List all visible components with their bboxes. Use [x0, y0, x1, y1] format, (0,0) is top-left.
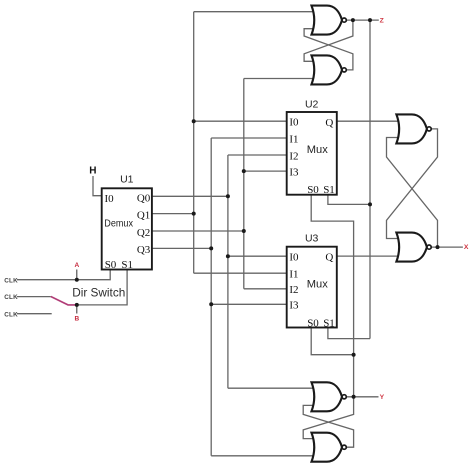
wire net Q1 top to NOR G1 input — [194, 11, 315, 13]
wire U3.S0 pin — [311, 328, 353, 355]
junction net Q0 / U3.I0 — [226, 254, 230, 258]
wire U1.Q3 to node V2 — [152, 247, 211, 249]
svg-text:CLK: CLK — [4, 311, 18, 318]
wire G1 output to G2 upper input (Z latch feedback) — [304, 20, 353, 61]
svg-text:Q3: Q3 — [137, 244, 151, 256]
svg-text:Mux: Mux — [307, 144, 329, 156]
svg-text:Q2: Q2 — [137, 227, 150, 239]
wire net Q2 to NOR G2 input — [244, 78, 315, 80]
junction net Q1 / U2.I0 — [192, 119, 196, 123]
svg-text:Q0: Q0 — [137, 192, 151, 204]
svg-text:Dir Switch: Dir Switch — [72, 285, 125, 299]
svg-text:H: H — [89, 166, 96, 177]
junction net Q3 / U3.I3 — [209, 302, 213, 306]
wire U1.Q0 to node V3 — [152, 195, 228, 197]
svg-text:Mux: Mux — [307, 278, 329, 290]
NOR gate G6 (Y latch lower) — [312, 433, 343, 462]
wire vertical net Q2 (V4) — [243, 79, 245, 289]
svg-text:S0: S0 — [307, 184, 319, 196]
svg-text:I3: I3 — [289, 300, 299, 312]
svg-text:S0: S0 — [307, 317, 319, 329]
wire NOR G5 output to Y — [347, 396, 379, 398]
svg-text:I1: I1 — [289, 133, 298, 145]
svg-text:Y: Y — [380, 394, 385, 401]
mux U2 body — [287, 112, 337, 195]
svg-text:S0: S0 — [105, 259, 117, 271]
svg-text:U1: U1 — [120, 174, 134, 186]
svg-text:Q1: Q1 — [137, 210, 150, 222]
junction Z net / U2.S1 — [368, 202, 372, 206]
wire U1.Q1 to node V1 — [152, 213, 194, 215]
wire net Q2 to U3.I2 — [244, 288, 287, 290]
svg-text:I2: I2 — [289, 284, 298, 296]
junction net Q2 / U1.Q2 — [242, 229, 246, 233]
wire vertical net Q3 (V2) — [210, 138, 212, 456]
wire net Q2 to U2.I3 — [244, 170, 287, 172]
svg-text:I1: I1 — [289, 269, 298, 281]
wire net Q3 to NOR G6 input — [211, 455, 315, 457]
node B tick — [76, 305, 78, 314]
svg-text:B: B — [74, 315, 79, 322]
wire CLK1 to U1.S0 — [17, 270, 110, 280]
junction Y net / U3.S0 — [352, 353, 356, 357]
switch blade (Dir Switch, pink) — [51, 297, 77, 305]
wire G5 output to G6 upper input (Y latch feedback) — [303, 397, 353, 439]
wire U3.S1 pin — [328, 328, 370, 339]
svg-text:S1: S1 — [323, 317, 335, 329]
wire NOR G1 output to Z — [347, 19, 379, 21]
wire net Q3 to U2.I1 — [211, 137, 287, 139]
junction node X — [436, 245, 440, 249]
NOR gate G1 (Z latch upper) — [312, 6, 343, 35]
wire G2 output to G1 lower input (Z latch feedback) — [304, 29, 353, 70]
junction net Q1 / U1.Q1 — [192, 212, 196, 216]
wire G6 output to G5 lower input (Y latch feedback) — [303, 405, 353, 447]
junction Z output feedback — [351, 18, 355, 22]
wire net Q0 to NOR G5 input — [228, 387, 315, 389]
demux U1 body — [102, 188, 152, 269]
wire Z net vertical — [369, 20, 371, 339]
svg-text:Z: Z — [380, 17, 384, 24]
wire node B to U1.S1 — [77, 270, 127, 305]
junction net Q3 / U1.Q3 — [209, 246, 213, 250]
svg-text:I0: I0 — [289, 117, 299, 129]
junction net Q2 / U2.I3 — [242, 169, 246, 173]
wire U2.S1 pin — [328, 195, 370, 205]
wire NOR G4 output to X — [431, 246, 463, 248]
svg-text:Q: Q — [325, 252, 333, 264]
svg-text:CLK: CLK — [4, 277, 18, 284]
junction net Q0 / U1.Q0 — [226, 194, 230, 198]
svg-text:U3: U3 — [305, 233, 319, 245]
node B junction — [75, 303, 79, 307]
wire CLK3 stub — [17, 313, 52, 315]
svg-text:I0: I0 — [289, 252, 299, 264]
svg-text:A: A — [74, 262, 79, 269]
svg-text:X: X — [464, 244, 469, 251]
svg-text:S1: S1 — [121, 259, 133, 271]
wire net Q1 to U2.I0 — [194, 120, 287, 122]
wire G3 output to G4 upper input (X latch feedback) — [387, 129, 438, 239]
wire U1.Q2 to node V4 — [152, 230, 244, 232]
mux U3 body — [287, 247, 337, 328]
NOR gate G5 (Y latch upper) — [312, 382, 343, 411]
svg-text:CLK: CLK — [4, 294, 18, 301]
junction node Y — [352, 395, 356, 399]
svg-text:I3: I3 — [289, 167, 299, 179]
wire U3.Q to NOR G4 input — [337, 255, 400, 257]
svg-text:S1: S1 — [323, 184, 335, 196]
wire net Q0 to U3.I0 — [228, 255, 287, 257]
wire vertical net Q1 (V1) — [193, 12, 195, 274]
node A tick — [76, 270, 78, 280]
wire net Q1 to U3.I1 — [194, 272, 287, 274]
svg-text:I0: I0 — [105, 193, 115, 205]
svg-text:Demux: Demux — [104, 219, 133, 230]
NOR gate G2 (Z latch lower) — [312, 55, 343, 84]
wire H to U1.I0 — [93, 176, 102, 196]
wire CLK2 stub — [17, 296, 51, 298]
wire net Q3 to U3.I3 — [211, 303, 287, 305]
wire Y net vertical from U2.S0 to Y node — [311, 195, 353, 397]
svg-text:I2: I2 — [289, 150, 298, 162]
svg-text:Q: Q — [325, 117, 333, 129]
wire U2.Q to NOR G3 input — [337, 120, 400, 122]
wire G4 output to G3 lower input (X latch feedback) — [387, 138, 438, 248]
node A junction — [75, 278, 79, 282]
svg-text:U2: U2 — [305, 99, 319, 111]
NOR gate G4 (X latch lower) — [396, 233, 427, 262]
wire vertical net Q0 (V3) — [227, 155, 229, 388]
junction node Z — [368, 18, 372, 22]
wire net Q0 to U2.I2 — [228, 154, 287, 156]
NOR gate G3 (X latch upper) — [396, 114, 427, 143]
